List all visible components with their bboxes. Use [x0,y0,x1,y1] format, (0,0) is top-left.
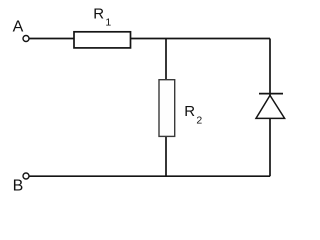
svg-text:B: B [13,178,24,195]
svg-text:R: R [184,103,195,120]
svg-text:A: A [13,19,24,36]
svg-text:1: 1 [105,16,111,28]
svg-text:2: 2 [196,114,202,126]
svg-text:R: R [93,6,104,23]
